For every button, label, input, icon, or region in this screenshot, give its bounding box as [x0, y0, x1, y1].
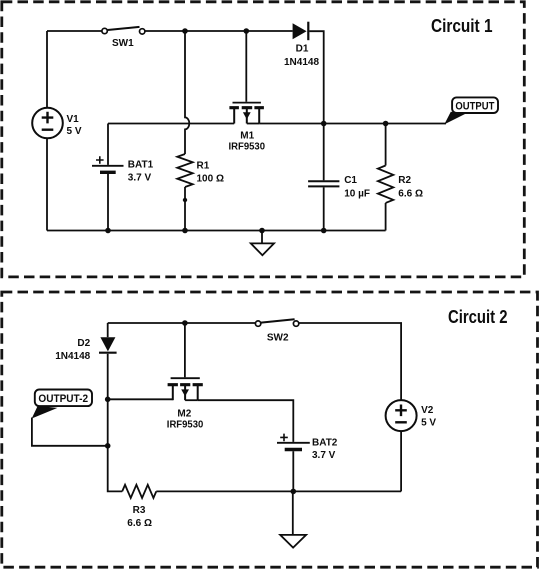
svg-text:M2: M2	[177, 409, 191, 420]
wire: M2 right leg to BAT2	[198, 400, 294, 442]
svg-text:OUTPUT-2: OUTPUT-2	[38, 393, 88, 405]
wire: SW1 to D1 anode	[145, 30, 292, 32]
output flag OUTPUT-2	[32, 390, 108, 446]
resistor R1	[177, 154, 192, 187]
svg-text:C1: C1	[344, 175, 357, 186]
junction dot (D1 cathode / output net)	[321, 121, 327, 127]
wire: SW2 to V2 top	[299, 323, 401, 400]
voltage source V1	[32, 31, 63, 231]
svg-text:5 V: 5 V	[67, 126, 82, 137]
wire: D1 cathode down to output net	[309, 31, 323, 123]
svg-text:Circuit 2: Circuit 2	[448, 307, 508, 327]
wire: R1 to bottom rail	[184, 187, 186, 231]
svg-text:R3: R3	[133, 505, 146, 516]
wire: top rail to R1 with hop over gate net	[185, 31, 189, 154]
ground (circuit 2)	[280, 491, 306, 547]
svg-text:5 V: 5 V	[421, 418, 436, 429]
junction dot (BAT1 / bottom rail)	[105, 228, 111, 234]
svg-text:M1: M1	[240, 130, 254, 141]
svg-text:R1: R1	[197, 161, 210, 172]
svg-text:IRF9530: IRF9530	[167, 419, 204, 430]
svg-text:100 Ω: 100 Ω	[197, 174, 224, 185]
junction dot (OUTPUT-2 wire)	[105, 443, 111, 449]
svg-text:SW1: SW1	[112, 38, 134, 49]
svg-text:3.7 V: 3.7 V	[128, 173, 152, 184]
diode D1	[293, 22, 309, 41]
ground (circuit 1)	[251, 231, 274, 256]
switch SW1	[102, 27, 145, 34]
svg-text:10 µF: 10 µF	[344, 189, 370, 200]
junction dot (R1 / bottom rail)	[182, 228, 188, 234]
battery BAT1	[92, 124, 124, 231]
svg-text:V2: V2	[421, 405, 434, 416]
junction dot (BAT2 / ground rail)	[291, 489, 297, 495]
MOSFET M1	[229, 31, 264, 124]
circuit 2 dashed border	[2, 292, 538, 567]
svg-text:6.6 Ω: 6.6 Ω	[127, 518, 152, 529]
resistor R3	[122, 485, 131, 498]
svg-text:OUTPUT: OUTPUT	[455, 100, 494, 112]
capacitor C1	[308, 124, 339, 231]
circuit 1 dashed border	[2, 2, 525, 277]
battery BAT2	[277, 434, 310, 492]
svg-text:V1: V1	[67, 114, 80, 125]
output flag OUTPUT	[444, 97, 498, 124]
MOSFET M2	[168, 323, 203, 400]
pin dot R1 bottom	[183, 198, 187, 202]
svg-text:R2: R2	[398, 175, 411, 186]
wire: bottom rail (ground net)	[47, 230, 386, 232]
svg-text:BAT2: BAT2	[312, 438, 338, 449]
junction dot (top rail / M1 gate)	[244, 28, 250, 34]
wire: BAT1 to M1 (gate net)	[108, 123, 234, 125]
wire: ground rail circuit 2	[156, 490, 401, 492]
wire: D2 top corner to SW2	[108, 322, 256, 324]
switch SW2	[255, 319, 298, 326]
wire: V1 top to SW1	[47, 30, 102, 32]
svg-text:D1: D1	[296, 44, 309, 55]
svg-text:Circuit 1: Circuit 1	[431, 16, 493, 36]
svg-text:3.7 V: 3.7 V	[312, 450, 336, 461]
junction dot (R2 / output net)	[383, 121, 389, 127]
junction dot (top rail / R1 branch)	[182, 28, 188, 34]
junction dot (D2 / M2 wire)	[105, 397, 111, 403]
svg-text:6.6 Ω: 6.6 Ω	[398, 189, 423, 200]
resistor R2	[378, 124, 393, 231]
wire: node to M2 left leg	[108, 398, 173, 400]
diode D2	[99, 323, 117, 353]
svg-text:BAT1: BAT1	[128, 160, 154, 171]
svg-text:D2: D2	[77, 338, 90, 349]
svg-text:1N4148: 1N4148	[55, 351, 90, 362]
voltage source V2	[386, 400, 417, 491]
wire: D2 cathode down to M2 node	[107, 354, 109, 400]
wire: M1 drain to output net	[259, 123, 446, 125]
junction dot (C1 / bottom rail)	[321, 228, 327, 234]
svg-text:SW2: SW2	[267, 332, 289, 343]
wire: D2 node down to R3	[108, 399, 123, 491]
svg-text:1N4148: 1N4148	[284, 57, 319, 68]
svg-text:IRF9530: IRF9530	[229, 141, 266, 152]
junction dot (ground stub / bottom rail)	[259, 228, 265, 234]
junction dot (M2 gate / top rail)	[182, 320, 188, 326]
